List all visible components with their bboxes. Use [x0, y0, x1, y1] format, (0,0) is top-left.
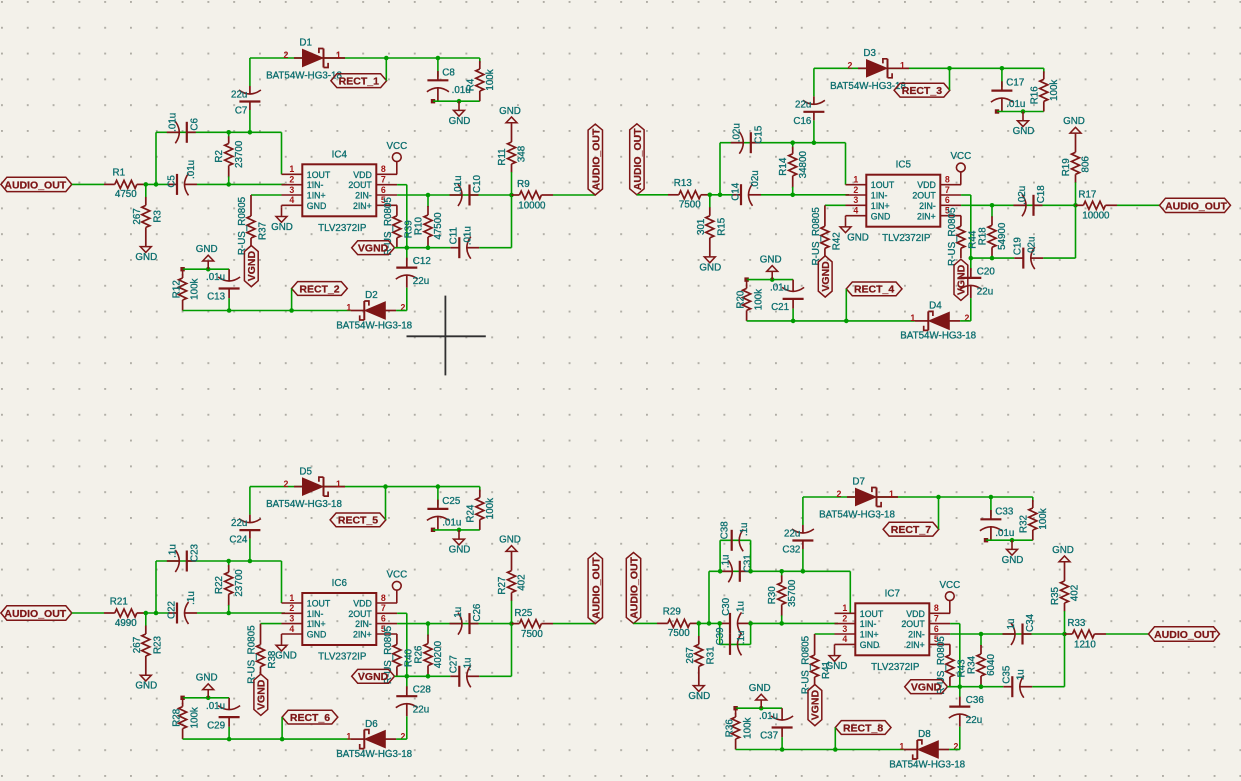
svg-text:R17: R17 [1078, 189, 1096, 200]
svg-text:4990: 4990 [115, 618, 137, 629]
svg-text:.01u: .01u [1006, 99, 1025, 110]
svg-text:VGND: VGND [956, 264, 968, 295]
svg-text:R-US_R0805: R-US_R0805 [247, 625, 258, 684]
svg-text:R33: R33 [1067, 618, 1086, 629]
svg-text:.01u: .01u [462, 226, 473, 245]
svg-text:100k: 100k [1038, 508, 1049, 529]
svg-text:.02u: .02u [750, 170, 761, 189]
svg-text:.02u: .02u [731, 123, 742, 142]
svg-text:1210: 1210 [1074, 639, 1096, 650]
svg-text:VGND: VGND [246, 251, 258, 282]
svg-text:47500: 47500 [433, 212, 444, 240]
capacitor C21 [770, 280, 804, 324]
svg-text:22u: 22u [784, 528, 800, 539]
resistor R21 [104, 596, 146, 629]
capacitor C5 [167, 160, 198, 196]
global label RECT_6 [282, 710, 338, 724]
capacitor C16 [793, 68, 824, 145]
svg-text:.1u: .1u [739, 522, 750, 536]
global label VGND below R44 [954, 259, 968, 300]
svg-text:C10: C10 [472, 174, 483, 193]
capacitor C35 [1001, 665, 1032, 698]
feedback bus wire [156, 132, 282, 174]
svg-text:D2: D2 [365, 290, 378, 301]
svg-text:AUDIO_OUT: AUDIO_OUT [590, 557, 602, 619]
svg-text:GND: GND [271, 222, 293, 233]
wire C8 bottom bus [431, 528, 480, 532]
hierarchical label AUDIO_OUT (input of IC7) [626, 553, 640, 624]
svg-text:23700: 23700 [234, 569, 245, 597]
svg-text:C26: C26 [472, 603, 483, 622]
svg-text:R32: R32 [1018, 515, 1029, 533]
svg-text:1: 1 [289, 593, 294, 603]
svg-text:C22: C22 [167, 601, 178, 619]
svg-text:C27: C27 [448, 655, 459, 673]
resistor R42 [811, 205, 843, 265]
resistor R27 [497, 552, 528, 624]
svg-text:R26: R26 [414, 645, 425, 664]
wire R20 top [744, 277, 793, 281]
svg-text:1u: 1u [1006, 619, 1017, 630]
svg-text:6: 6 [381, 613, 386, 623]
svg-text:1: 1 [336, 479, 341, 489]
svg-text:GND: GND [499, 534, 521, 545]
svg-text:C28: C28 [413, 685, 432, 696]
diode D2 [336, 290, 412, 331]
svg-text:C18: C18 [1036, 185, 1047, 204]
svg-text:1OUT: 1OUT [307, 170, 331, 180]
svg-text:C21: C21 [771, 302, 789, 313]
svg-text:100k: 100k [485, 69, 496, 90]
diode D3 [830, 48, 909, 92]
svg-text:GND: GND [1013, 126, 1035, 137]
resistor R39 [383, 197, 415, 256]
svg-text:806: 806 [1081, 156, 1092, 173]
svg-text:R42: R42 [831, 232, 842, 250]
svg-text:2IN+: 2IN+ [353, 201, 372, 211]
svg-text:1: 1 [346, 731, 351, 741]
svg-text:2OUT: 2OUT [348, 609, 372, 619]
wire pin 3 to R41 [815, 633, 835, 635]
diode D4 [900, 301, 976, 342]
svg-text:R13: R13 [674, 178, 693, 189]
feedback bus wire [720, 143, 846, 185]
capacitor C26 [450, 603, 484, 635]
resistor R30 [767, 569, 798, 626]
wire diode to C12 line [396, 310, 407, 312]
wire C11 to output node [1032, 632, 1066, 687]
wire stub to RECT_4 [844, 289, 849, 323]
svg-text:2IN+: 2IN+ [917, 211, 936, 221]
resistor R13 [668, 178, 710, 211]
capacitor C38 [718, 521, 753, 574]
wire stub to RECT_1 [384, 56, 389, 81]
power VCC [386, 569, 407, 603]
svg-text:C11: C11 [448, 227, 459, 244]
resistor R31 [685, 623, 717, 685]
global label RECT_8 [835, 721, 891, 735]
svg-text:C8: C8 [442, 67, 455, 78]
svg-text:.1u: .1u [462, 657, 473, 671]
wire node to input cap [710, 194, 734, 196]
svg-text:6: 6 [381, 185, 386, 195]
resistor R36 [725, 708, 754, 749]
capacitor C11 [448, 226, 479, 259]
svg-text:VCC: VCC [950, 151, 971, 162]
ground at pin 4 [840, 216, 869, 244]
svg-text:C6: C6 [189, 117, 200, 130]
svg-text:VGND: VGND [358, 243, 389, 255]
svg-text:C24: C24 [229, 534, 248, 545]
junction at R1 output [144, 182, 149, 187]
global label VGND below R38 [254, 674, 268, 715]
svg-text:C29: C29 [207, 720, 225, 731]
svg-text:D4: D4 [929, 301, 942, 312]
svg-text:7: 7 [934, 613, 939, 623]
resistor R1 [104, 168, 146, 201]
svg-text:.01u: .01u [167, 113, 178, 132]
global label RECT_1 [331, 74, 387, 88]
VGND bus wire [971, 257, 1015, 259]
hierarchical label AUDIO_OUT (output) [1149, 627, 1220, 641]
capacitor C14 [731, 170, 762, 206]
svg-text:1: 1 [289, 164, 294, 174]
svg-text:C16: C16 [793, 116, 812, 127]
svg-text:22u: 22u [231, 518, 247, 529]
svg-text:IC7: IC7 [885, 588, 900, 599]
diode D1 [266, 38, 345, 82]
svg-text:R22: R22 [214, 576, 225, 594]
bottom bus wire [183, 310, 351, 312]
top feedback wire [814, 67, 1044, 69]
resistor R38 [247, 624, 279, 684]
ground on wire [196, 673, 218, 701]
svg-text:2: 2 [842, 613, 847, 623]
capacitor C22 [167, 591, 198, 624]
wire C11 to output node [479, 621, 514, 676]
svg-text:.01u: .01u [206, 701, 225, 712]
svg-text:.1u: .1u [167, 544, 178, 558]
resistor R34 [967, 632, 998, 689]
svg-text:1IN+: 1IN+ [307, 191, 326, 201]
wire 2OUT down [397, 185, 407, 248]
wire stub to RECT_7 [936, 495, 941, 530]
hierarchical label AUDIO_OUT (input of IC5) [630, 124, 644, 195]
svg-text:22u: 22u [966, 715, 982, 726]
svg-text:RECT_4: RECT_4 [854, 284, 894, 296]
svg-text:R3: R3 [152, 210, 163, 223]
svg-text:1: 1 [336, 50, 341, 60]
svg-text:RECT_8: RECT_8 [843, 722, 883, 734]
svg-text:GND: GND [1002, 555, 1024, 566]
wire up to feedback bus [719, 143, 721, 195]
svg-text:2IN-: 2IN- [355, 619, 372, 629]
svg-text:22u: 22u [413, 705, 429, 716]
svg-text:3: 3 [289, 185, 294, 195]
svg-text:GND: GND [871, 211, 891, 221]
svg-text:R25: R25 [514, 608, 533, 619]
svg-text:AUDIO_OUT: AUDIO_OUT [4, 179, 66, 191]
svg-text:6: 6 [934, 624, 939, 634]
svg-text:C13: C13 [207, 292, 226, 303]
wire input to R1 [72, 183, 104, 185]
junction at R13 output [708, 193, 713, 198]
wire 2OUT down [397, 613, 407, 676]
svg-text:VGND: VGND [358, 671, 389, 683]
capacitor C17 [991, 66, 1025, 112]
wire C8 bottom bus [984, 538, 1033, 542]
wire node to input cap [699, 622, 723, 624]
svg-text:22u: 22u [977, 286, 993, 297]
capacitor C24 [229, 487, 260, 564]
svg-text:GND: GND [1063, 116, 1085, 127]
wire input to R13 [637, 194, 668, 196]
capacitor C18 [1014, 185, 1048, 217]
svg-text:10000: 10000 [518, 200, 546, 211]
global label RECT_3 [894, 83, 950, 97]
svg-text:7: 7 [381, 175, 386, 185]
ground on bus [449, 528, 471, 556]
resistor R44 [947, 207, 979, 266]
svg-text:C12: C12 [413, 256, 431, 267]
svg-text:22u: 22u [413, 276, 429, 287]
svg-text:R38: R38 [267, 650, 278, 669]
svg-text:8: 8 [945, 175, 950, 185]
svg-text:IC4: IC4 [332, 149, 348, 160]
svg-text:C17: C17 [1006, 78, 1024, 89]
svg-text:R1: R1 [113, 168, 126, 179]
svg-text:R24: R24 [465, 504, 476, 523]
capacitor C31 [720, 554, 754, 582]
junction at input cap [154, 182, 159, 187]
op-amp IC4 [282, 149, 398, 234]
svg-text:D3: D3 [863, 48, 876, 59]
svg-text:C37: C37 [760, 731, 778, 742]
svg-text:R41: R41 [821, 661, 832, 679]
svg-text:R28: R28 [172, 708, 183, 727]
resistor R33 [1065, 618, 1107, 650]
svg-text:.1u: .1u [720, 554, 731, 568]
wire stub to RECT_6 [280, 717, 285, 741]
svg-text:100k: 100k [190, 278, 201, 299]
svg-text:GND: GND [760, 254, 782, 265]
svg-text:AUDIO_OUT: AUDIO_OUT [4, 608, 66, 620]
global label VGND at bus [905, 680, 948, 694]
svg-text:GND: GND [699, 262, 721, 273]
svg-text:4: 4 [289, 624, 294, 634]
capacitor C30 [721, 597, 750, 634]
op-amp IC5 [846, 160, 962, 245]
capacitor C25 [427, 484, 461, 530]
svg-text:C19: C19 [1012, 237, 1023, 255]
svg-text:GND: GND [196, 673, 218, 684]
svg-text:C35: C35 [1001, 665, 1012, 684]
svg-text:1: 1 [346, 303, 351, 313]
wire output row [397, 194, 511, 196]
resistor R32 [1018, 497, 1049, 540]
wire input to R21 [72, 612, 104, 614]
svg-text:IC5: IC5 [896, 160, 912, 171]
resistor R43 [936, 636, 968, 695]
svg-text:2: 2 [853, 185, 858, 195]
svg-text:2: 2 [401, 731, 406, 741]
hierarchical label AUDIO_OUT (output) [588, 553, 602, 624]
svg-text:402: 402 [517, 574, 528, 590]
svg-text:D8: D8 [918, 729, 931, 740]
capacitor C12 [396, 245, 431, 310]
ground below R15 [699, 256, 721, 273]
op-amp IC7 [835, 588, 951, 673]
ground above R11 [499, 106, 521, 124]
resistor R2 [214, 130, 245, 187]
global label VGND below R37 [244, 246, 258, 287]
VGND bus wire [395, 247, 451, 249]
svg-text:C32: C32 [782, 545, 800, 556]
top feedback wire [250, 57, 480, 59]
svg-text:1: 1 [853, 175, 858, 185]
svg-text:7: 7 [381, 603, 386, 613]
resistor R35 [1050, 562, 1081, 634]
wire R28 top [180, 696, 229, 700]
svg-text:C7: C7 [235, 106, 248, 117]
svg-text:VGND: VGND [256, 679, 268, 710]
global label RECT_5 [330, 513, 386, 527]
svg-text:R10: R10 [414, 216, 425, 235]
svg-text:R19: R19 [1061, 158, 1072, 176]
wire to output label [1106, 633, 1149, 635]
svg-text:GND: GND [275, 651, 297, 662]
svg-text:BAT54W-HG3-18: BAT54W-HG3-18 [819, 510, 895, 521]
svg-text:C14: C14 [731, 182, 742, 201]
wire C8 bottom bus [995, 109, 1044, 113]
svg-text:C38: C38 [720, 521, 731, 540]
wire diode to C12 line [396, 738, 407, 740]
svg-text:2IN-: 2IN- [919, 201, 936, 211]
capacitor C37 [759, 708, 793, 752]
wire R36 top [733, 706, 782, 710]
svg-text:BAT54W-HG3-18: BAT54W-HG3-18 [336, 749, 412, 760]
svg-text:R11: R11 [497, 148, 508, 165]
svg-text:D5: D5 [299, 466, 312, 477]
svg-text:TLV2372IP: TLV2372IP [318, 223, 367, 234]
svg-text:23700: 23700 [234, 140, 245, 168]
ground above R27 [499, 534, 521, 552]
resistor R29 [657, 607, 699, 640]
capacitor C33 [980, 495, 1014, 541]
capacitor C15 [731, 123, 765, 154]
diode D8 [889, 729, 965, 770]
diode D7 [819, 477, 898, 521]
svg-text:GND: GND [1052, 545, 1074, 556]
hierarchical label AUDIO_OUT (input of IC4) [1, 177, 72, 191]
svg-text:VDD: VDD [906, 609, 925, 619]
svg-text:R31: R31 [705, 646, 716, 664]
svg-text:R14: R14 [778, 157, 789, 176]
junction at R29 output [697, 621, 702, 626]
svg-text:RECT_6: RECT_6 [290, 712, 330, 724]
capacitor C10 [450, 174, 484, 206]
ground on wire [196, 244, 218, 272]
svg-text:C30: C30 [721, 597, 732, 616]
top feedback wire [250, 486, 480, 488]
svg-text:100k: 100k [743, 717, 754, 738]
svg-text:GND: GND [307, 201, 327, 211]
resistor R14 [778, 140, 809, 197]
svg-text:.1u: .1u [736, 601, 747, 615]
svg-text:BAT54W-HG3-18: BAT54W-HG3-18 [889, 759, 965, 770]
svg-text:VGND: VGND [810, 690, 822, 721]
svg-text:VCC: VCC [386, 141, 407, 152]
capacitor C27 [448, 655, 479, 687]
VGND bus wire [948, 686, 1004, 688]
ground at pin 4 [826, 644, 848, 672]
capacitor C34 [1003, 613, 1037, 645]
wire to output label [553, 194, 595, 196]
junction at input cap [154, 611, 159, 616]
ground on wire [749, 683, 771, 711]
capacitor C39 [715, 621, 753, 655]
capacitor C19 [1012, 237, 1043, 270]
hierarchical label AUDIO_OUT (output) [588, 124, 602, 195]
svg-text:VGND: VGND [911, 682, 942, 694]
svg-text:100k: 100k [1049, 80, 1060, 101]
capacitor C36 [949, 684, 985, 749]
svg-text:402: 402 [1070, 585, 1081, 601]
svg-text:GND: GND [499, 106, 521, 117]
ground below R31 [688, 685, 710, 702]
svg-text:2IN-: 2IN- [355, 191, 372, 201]
capacitor C13 [206, 269, 240, 313]
svg-text:RECT_7: RECT_7 [891, 524, 931, 536]
svg-text:C39: C39 [715, 627, 726, 645]
svg-text:1: 1 [910, 313, 915, 323]
svg-text:2OUT: 2OUT [901, 619, 925, 629]
svg-text:35700: 35700 [787, 579, 798, 607]
svg-text:R21: R21 [110, 596, 128, 607]
svg-text:R16: R16 [1029, 86, 1040, 105]
svg-text:R-US_R0805: R-US_R0805 [801, 635, 812, 694]
svg-text:.1u: .1u [186, 591, 197, 605]
svg-text:C36: C36 [966, 695, 985, 706]
svg-text:GND: GND [307, 630, 327, 640]
svg-text:R34: R34 [967, 655, 978, 674]
wire stub to RECT_8 [833, 728, 838, 752]
svg-text:2: 2 [284, 479, 289, 489]
svg-text:34800: 34800 [798, 151, 809, 179]
svg-text:C20: C20 [977, 266, 996, 277]
ground below R23 [135, 675, 157, 692]
capacitor C28 [396, 674, 432, 739]
power VCC [939, 580, 960, 614]
svg-text:R29: R29 [663, 607, 681, 618]
sheet origin crosshair [407, 296, 486, 376]
svg-text:R9: R9 [517, 179, 530, 190]
svg-text:R-US_R0805: R-US_R0805 [811, 207, 822, 266]
svg-text:267: 267 [685, 647, 696, 663]
wire C8 bottom bus [431, 99, 480, 103]
op-amp IC6 [282, 578, 398, 663]
svg-text:301: 301 [696, 219, 707, 235]
wire cap to pin 2 [750, 622, 838, 624]
svg-text:C5: C5 [167, 175, 178, 188]
wire R12 top [180, 267, 229, 271]
wire stub to RECT_3 [947, 66, 952, 90]
svg-text:GND: GND [688, 691, 710, 702]
svg-text:BAT54W-HG3-18: BAT54W-HG3-18 [266, 499, 342, 510]
feedback bus wire [709, 571, 850, 613]
svg-text:1IN-: 1IN- [307, 180, 324, 190]
svg-text:R2: R2 [214, 150, 225, 163]
